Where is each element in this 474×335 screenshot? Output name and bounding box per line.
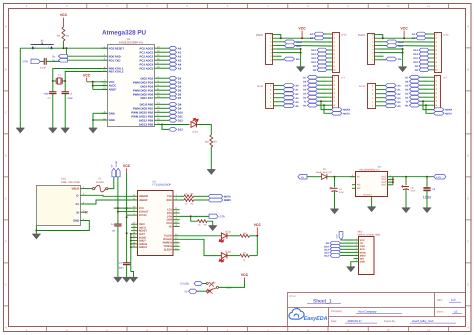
title block value underlines bbox=[307, 302, 462, 323]
svg-text:DIG7 PD7: DIG7 PD7 bbox=[140, 96, 153, 100]
svg-text:AREF: AREF bbox=[109, 87, 117, 91]
net port DTR right bbox=[209, 214, 218, 219]
wire fuse to 5V port bbox=[108, 177, 114, 189]
junction OUT rows bbox=[392, 178, 394, 180]
wire OUT bus vertical bbox=[392, 177, 394, 185]
svg-text:D+: D+ bbox=[76, 202, 80, 206]
U1 pin 24 PC1 ADC1 with net flag A1 bbox=[139, 50, 169, 55]
svg-text:DTR: DTR bbox=[220, 216, 225, 219]
net flag D13 bbox=[169, 128, 177, 132]
junction C7 net bbox=[126, 232, 128, 234]
net flag M8RX bbox=[208, 198, 223, 202]
svg-text:3.3V: 3.3V bbox=[336, 234, 339, 239]
net flag A0 bbox=[169, 46, 177, 50]
net flag D11 to MK2 bbox=[330, 251, 341, 255]
svg-text:D11: D11 bbox=[178, 115, 183, 118]
wire 5V row pin7 bbox=[380, 37, 435, 39]
ground below C4 bbox=[49, 128, 57, 133]
U1 pin 21 AREF bbox=[102, 87, 117, 92]
svg-text:VCC: VCC bbox=[400, 26, 408, 30]
wire C7 to ground bbox=[126, 265, 128, 278]
wire VCC down to U4 bbox=[126, 173, 128, 263]
wire reset row pin6 bbox=[380, 41, 435, 43]
svg-text:GND/ADJ: GND/ADJ bbox=[363, 194, 372, 197]
ground below C7 bbox=[122, 277, 130, 282]
ground below C8 reg bbox=[402, 208, 410, 213]
U1 pin 2 PD0 RXD bbox=[102, 54, 121, 59]
svg-text:D4: D4 bbox=[178, 85, 182, 88]
A0-A5 header pins bbox=[270, 84, 283, 107]
resistor R6 bbox=[198, 220, 208, 223]
svg-text:MSRX: MSRX bbox=[343, 109, 350, 112]
switch SJ1 power select bbox=[206, 282, 218, 294]
net flag D10 bbox=[317, 60, 327, 64]
svg-text:CSN: CSN bbox=[360, 245, 365, 248]
svg-text:2: 2 bbox=[389, 174, 390, 177]
junction C2/reset bbox=[65, 47, 67, 49]
svg-text:sherif_fathy_moh: sherif_fathy_moh bbox=[412, 319, 434, 323]
net port Tx bbox=[58, 59, 67, 63]
wire U4 ground bus bbox=[130, 233, 134, 277]
svg-text:DTR: DTR bbox=[23, 61, 28, 64]
svg-text:OUT: OUT bbox=[382, 176, 387, 179]
svg-text:C: C bbox=[5, 112, 7, 115]
junction gnd rows bbox=[402, 48, 404, 50]
wire U1 GND pin8 row bbox=[93, 112, 107, 114]
net flag Vin bbox=[284, 57, 295, 61]
junction VCC row bbox=[403, 37, 405, 39]
ground below C4 reg bbox=[330, 209, 338, 214]
U1 pin 26 PC3 ADC3 with net flag A3 bbox=[139, 58, 169, 63]
svg-text:MK2: MK2 bbox=[358, 230, 363, 233]
LED LED3 bbox=[219, 253, 227, 262]
svg-text:PWR1: PWR1 bbox=[358, 34, 366, 37]
wire R6 to ground bbox=[207, 221, 213, 225]
svg-text:Sheet:: Sheet: bbox=[437, 310, 444, 313]
svg-text:Rese: Rese bbox=[398, 41, 404, 44]
U4 pin 16 USBDM bbox=[131, 194, 148, 198]
wire U4 VCCIO row bbox=[127, 214, 131, 216]
net flag D2 bbox=[308, 95, 318, 99]
ground below S1 rail bbox=[16, 128, 24, 133]
net flag A4 analog bbox=[283, 100, 294, 104]
net flag A4 bbox=[169, 62, 177, 66]
svg-text:TXD: TXD bbox=[167, 195, 172, 198]
U4 pin 22 RXLED bbox=[163, 237, 179, 241]
wire pin8 jog bbox=[278, 35, 281, 39]
svg-text:VCC: VCC bbox=[254, 223, 262, 227]
net flag D11 bbox=[419, 56, 429, 60]
module MK2 NRF24 body bbox=[359, 237, 375, 275]
wire C8cap to ground bbox=[405, 189, 407, 207]
wire Vin to D1 bbox=[307, 176, 322, 178]
junction C4 input node bbox=[334, 176, 336, 178]
svg-text:D8: D8 bbox=[178, 103, 182, 106]
svg-text:A3: A3 bbox=[178, 59, 182, 62]
wire DIG13 to LED1 bbox=[162, 124, 189, 126]
LED LED1 bbox=[191, 118, 198, 127]
svg-text:PB7 XTAL2: PB7 XTAL2 bbox=[109, 70, 124, 74]
wire R8 to VCC node bbox=[249, 235, 257, 237]
junction AVCC bbox=[92, 85, 94, 87]
svg-text:D-: D- bbox=[76, 193, 79, 197]
net flag D3 bbox=[169, 80, 177, 84]
capacitor C4 22pF bbox=[49, 92, 56, 94]
junction GND bus bbox=[92, 119, 94, 121]
connector 0-7 header bbox=[435, 76, 441, 110]
U1 pin 8 GND bbox=[102, 111, 115, 116]
wire C8 to ground bbox=[117, 226, 119, 277]
8-13 header pins bbox=[328, 33, 337, 72]
U4 pin 21 GND21 bbox=[131, 245, 148, 249]
MK2 pin 3 CSN bbox=[354, 244, 365, 248]
connector A0-A5 header bbox=[368, 84, 376, 109]
svg-text:D6: D6 bbox=[178, 93, 182, 96]
svg-text:8-13: 8-13 bbox=[342, 33, 347, 36]
resistor R7 bbox=[240, 254, 250, 257]
svg-text:8: 8 bbox=[356, 259, 357, 262]
net port 3.3V down to MK2 bbox=[339, 232, 343, 240]
net flag A5 to pin2 bbox=[416, 36, 426, 40]
U4 pin 13 TXDEN bbox=[163, 244, 179, 248]
U4 pin 5 RXD bbox=[167, 198, 180, 202]
U3 pins NC bbox=[352, 184, 356, 186]
wire DIG13 to D13 flag bbox=[162, 125, 169, 130]
wire R3 to M8TX flag bbox=[194, 195, 209, 197]
net flag D9 to MK2 bbox=[330, 241, 341, 245]
svg-text:B: B bbox=[5, 69, 7, 72]
svg-text:3: 3 bbox=[389, 177, 390, 180]
capacitor C6 100n bbox=[423, 188, 430, 190]
svg-text:VBUS: VBUS bbox=[72, 187, 80, 191]
wire LED1 to R2 bbox=[197, 125, 212, 136]
net flag A2 analog bbox=[283, 92, 294, 96]
svg-text:PWR2: PWR2 bbox=[256, 34, 264, 37]
svg-text:22pF: 22pF bbox=[67, 97, 73, 100]
U4 pin 27 OSCI bbox=[131, 222, 145, 226]
svg-text:VCCIO: VCCIO bbox=[139, 214, 147, 217]
svg-text:Atmega328 PU: Atmega328 PU bbox=[102, 30, 147, 37]
net flag D10 bbox=[419, 60, 429, 64]
svg-text:D12: D12 bbox=[324, 255, 329, 258]
svg-text:3.3V: 3.3V bbox=[398, 45, 403, 48]
svg-text:NC: NC bbox=[357, 184, 361, 187]
svg-text:1/1: 1/1 bbox=[454, 310, 458, 313]
wire crystal right to C5 bbox=[64, 81, 66, 92]
net port VUSB up bbox=[116, 168, 120, 177]
svg-text:PC5 ADC5: PC5 ADC5 bbox=[139, 66, 153, 70]
net flag Tx bbox=[410, 99, 420, 103]
svg-text:G: G bbox=[5, 284, 7, 287]
svg-text:H: H bbox=[467, 327, 469, 330]
net flag A2 bbox=[169, 54, 177, 58]
svg-text:FT232RL/SSOP: FT232RL/SSOP bbox=[153, 184, 172, 187]
wire to C6 bbox=[426, 177, 428, 188]
junction 3V3OUT net bbox=[117, 211, 119, 213]
svg-text:VUSB: VUSB bbox=[115, 161, 118, 167]
net flag A3 bbox=[169, 58, 177, 62]
LED LED2 bbox=[219, 233, 227, 242]
net flag D8 bbox=[317, 68, 327, 72]
svg-text:RXD: RXD bbox=[167, 199, 172, 202]
net flag D8 bbox=[169, 103, 177, 107]
net flag D4 bbox=[410, 87, 420, 91]
net flag D12 to MK2 bbox=[330, 254, 341, 258]
resistor R2 bbox=[210, 135, 213, 147]
net flag D4 bbox=[169, 84, 177, 88]
svg-text:A0-A1: A0-A1 bbox=[359, 85, 366, 88]
A0-A5 header pins bbox=[372, 84, 385, 107]
resistor R1 bbox=[62, 27, 65, 41]
junction gnd rows bbox=[300, 48, 302, 50]
svg-text:Vin: Vin bbox=[398, 58, 402, 61]
net flag A5 analog bbox=[385, 104, 396, 108]
U4 pin 26 TEST bbox=[131, 231, 146, 235]
wire gnd bus down bbox=[300, 49, 302, 67]
resistor R4 bbox=[184, 199, 194, 202]
wire crystal left to C4 bbox=[52, 81, 54, 92]
net flag A1 analog bbox=[385, 88, 396, 92]
U4 pin 28 OSCO bbox=[131, 225, 146, 229]
svg-text:1: 1 bbox=[356, 238, 357, 241]
wire reset net horizontal bbox=[20, 47, 107, 49]
capacitor C8 1u bbox=[114, 224, 121, 226]
svg-text:D3: D3 bbox=[178, 81, 182, 84]
wire C2 to reset net bbox=[46, 48, 66, 61]
wire R2 to ground bbox=[210, 147, 212, 170]
net flag A4 analog bbox=[385, 100, 396, 104]
wire 5V to switch bbox=[197, 290, 206, 292]
wire to MSTX flag bbox=[426, 105, 434, 113]
junction crystal right bbox=[64, 80, 66, 82]
wire C5 to ground bbox=[64, 94, 66, 128]
U4 pin 15 USBDP bbox=[131, 198, 148, 202]
no-connect mark CN1 ID bbox=[85, 211, 87, 213]
svg-text:D13: D13 bbox=[311, 49, 316, 52]
wire to C8cap bbox=[405, 177, 407, 186]
net flag D12 bbox=[169, 119, 177, 123]
net flag D5 bbox=[308, 83, 318, 87]
svg-text:D11: D11 bbox=[414, 57, 419, 60]
svg-text:D10: D10 bbox=[178, 111, 183, 114]
svg-text:E: E bbox=[467, 198, 469, 201]
U4 pin 19 RESET bbox=[131, 228, 148, 232]
U1 pin 20 AVCC bbox=[102, 83, 117, 88]
svg-text:MSTX: MSTX bbox=[445, 112, 452, 115]
svg-text:SCK: SCK bbox=[360, 248, 365, 251]
net flag 5V bbox=[189, 289, 197, 293]
svg-text:EasyEDA: EasyEDA bbox=[304, 316, 328, 322]
wire TXLED to LED2 bbox=[180, 235, 222, 237]
net flag D2 bbox=[410, 95, 420, 99]
U1 pin 11 PWM DIG5 PD5 with net flag D5 bbox=[133, 88, 169, 93]
net flag Vin bbox=[386, 57, 397, 61]
net flag 3.3V mid bbox=[387, 44, 398, 48]
net flag D2 bbox=[169, 76, 177, 80]
resistor R8 bbox=[240, 234, 250, 237]
svg-text:OUT: OUT bbox=[382, 181, 387, 184]
U1 pin 5 PWM DIG3 PD3 with net flag D3 bbox=[133, 80, 169, 85]
PWR1 pins bbox=[372, 34, 379, 62]
svg-text:NC: NC bbox=[207, 291, 211, 294]
svg-text:D12: D12 bbox=[413, 53, 418, 56]
capacitor C2 bbox=[44, 58, 46, 65]
ground below C5 bbox=[61, 128, 69, 133]
wire CN1 shell to ground bbox=[35, 226, 37, 235]
svg-text:REV:: REV: bbox=[437, 299, 443, 302]
svg-text:MC33269DRQ-3.3: MC33269DRQ-3.3 bbox=[360, 169, 380, 172]
svg-text:D12: D12 bbox=[311, 53, 316, 56]
resistor R3 bbox=[184, 195, 194, 198]
net flag Reset mid bbox=[387, 40, 398, 44]
svg-text:A2: A2 bbox=[178, 55, 182, 58]
svg-text:M8RX: M8RX bbox=[224, 199, 231, 202]
wire to MSRX flag bbox=[423, 101, 434, 109]
svg-text:7V USB: 7V USB bbox=[180, 283, 189, 286]
junction Tx branch bbox=[422, 100, 424, 102]
svg-text:GND21: GND21 bbox=[139, 246, 148, 249]
junction VCC row bbox=[301, 37, 303, 39]
svg-text:TITLE:: TITLE: bbox=[289, 295, 297, 298]
CN1 pin 5 GND bbox=[73, 218, 86, 223]
svg-text:VCC: VCC bbox=[360, 239, 365, 242]
net flag D9 bbox=[317, 64, 327, 68]
svg-text:Company:: Company: bbox=[331, 310, 343, 313]
wire 3.3V row pin5 bbox=[278, 44, 333, 47]
wire AREF row bbox=[93, 88, 108, 90]
net flag D5 bbox=[169, 88, 177, 92]
wire S1 left to ground rail bbox=[19, 48, 21, 128]
wire 3.3V row pin5 bbox=[380, 44, 435, 47]
capacitor C5 22pF bbox=[62, 92, 69, 94]
ground below U4 bus bbox=[129, 277, 137, 282]
ground below C8 bbox=[114, 277, 122, 282]
net flag D12 bbox=[419, 52, 429, 56]
net flag A5 bbox=[169, 66, 177, 70]
wire DTR to C2 bbox=[40, 60, 44, 62]
wire C4cap to ground bbox=[334, 191, 336, 209]
wire gnd bus down bbox=[402, 49, 404, 67]
svg-text:ID: ID bbox=[76, 210, 79, 214]
net flag D3 bbox=[410, 91, 420, 95]
svg-text:FUSEP: FUSEP bbox=[96, 181, 104, 184]
svg-text:Date:: Date: bbox=[331, 320, 337, 323]
svg-text:COM: COM bbox=[226, 286, 232, 289]
8-13 header pins bbox=[430, 33, 439, 72]
MK2 pin 7 IQN bbox=[354, 256, 365, 260]
svg-text:6: 6 bbox=[356, 253, 357, 256]
MK2 pin 2 CE bbox=[354, 241, 364, 245]
svg-text:Your Company: Your Company bbox=[358, 309, 377, 313]
fuse F1 bbox=[93, 185, 108, 192]
U1 pin 18 DIG12 PB4 with net flag D12 bbox=[139, 118, 169, 123]
wire to MSTX flag bbox=[324, 105, 332, 113]
U4 pin 3 RTS bbox=[167, 211, 180, 215]
U1 pin 4 DIG2 PD2 with net flag D2 bbox=[140, 76, 169, 81]
svg-text:A: A bbox=[467, 26, 469, 29]
svg-text:7: 7 bbox=[356, 256, 357, 259]
U1 pin 19 DIG13 PB5 bbox=[139, 122, 162, 127]
junction DTR branch bbox=[190, 215, 192, 217]
junction Rx branch bbox=[425, 104, 427, 106]
net flag D7 bbox=[169, 96, 177, 100]
svg-text:A0: A0 bbox=[178, 47, 182, 50]
svg-text:DIG13 PB5: DIG13 PB5 bbox=[139, 123, 154, 127]
svg-text:D: D bbox=[5, 155, 7, 158]
junction Tx branch bbox=[320, 100, 322, 102]
wire GND bus down bbox=[92, 113, 94, 128]
ground below U3 bbox=[367, 207, 375, 212]
svg-text:Vin: Vin bbox=[296, 58, 300, 61]
U4 pin 10 DCD bbox=[166, 221, 179, 225]
U1 pin 16 PWM DIG10 PB2 with net flag D10 bbox=[131, 110, 169, 115]
wire U4 VCC row bbox=[114, 207, 131, 209]
wire reset row pin6 bbox=[278, 41, 333, 43]
svg-text:LED1: LED1 bbox=[192, 131, 199, 134]
svg-text:8-13: 8-13 bbox=[444, 33, 449, 36]
U4 pin 17 3V3OUT bbox=[131, 209, 149, 213]
wire VBUS to fuse bbox=[87, 188, 93, 190]
wire VUSB down to C8 and gnd bbox=[117, 177, 119, 224]
U3 pins OUT x4 bbox=[382, 174, 393, 186]
net flag D11 bbox=[317, 56, 327, 60]
U1 pin 10 PB7 XTAL2 bbox=[102, 69, 124, 74]
net flag D9 bbox=[169, 107, 177, 111]
net flag A5 analog bbox=[283, 104, 294, 108]
connector 0-7 header bbox=[333, 76, 339, 110]
net flag D10 to MK2 bbox=[330, 244, 341, 248]
svg-text:B: B bbox=[467, 69, 469, 72]
net flag 7V USB bbox=[194, 281, 202, 285]
svg-text:PC6 RESET: PC6 RESET bbox=[109, 46, 125, 50]
svg-text:diode_smd_m7: diode_smd_m7 bbox=[316, 171, 332, 174]
wire DTR to R6 bbox=[191, 216, 198, 221]
ground of header group bbox=[398, 67, 406, 72]
svg-text:CE: CE bbox=[360, 242, 364, 245]
svg-text:5: 5 bbox=[356, 250, 357, 253]
net flag MSRX bbox=[332, 108, 343, 112]
wire COM to VCC bbox=[219, 280, 245, 287]
connector A0-A5 header bbox=[266, 84, 274, 109]
U4 pin 2 DTR bbox=[167, 214, 180, 218]
wire R1 to reset net bbox=[62, 41, 64, 48]
net flag A4 to pin1 bbox=[314, 32, 324, 36]
net flag A1 analog bbox=[283, 88, 294, 92]
wire C4 to ground bbox=[52, 94, 54, 128]
svg-text:A4: A4 bbox=[178, 63, 182, 66]
net port Vin input bbox=[298, 174, 307, 179]
PWR2 pins bbox=[270, 34, 277, 62]
U1 pin 7 VCC bbox=[102, 79, 115, 84]
net flag A0 analog bbox=[385, 84, 396, 88]
U4 pin 18 GND18 bbox=[131, 241, 148, 245]
U4 pin 4 VCCIO bbox=[131, 213, 147, 217]
junction VCC bus bbox=[92, 81, 94, 83]
wire pin2 stub bbox=[278, 55, 282, 57]
svg-text:OUT: OUT bbox=[382, 178, 387, 181]
svg-text:A0-A1: A0-A1 bbox=[257, 85, 264, 88]
wire 3.3V to MK2 VCC bbox=[341, 239, 354, 241]
svg-text:MSTX: MSTX bbox=[343, 112, 350, 115]
U1 pin 13 DIG7 PD7 with net flag D7 bbox=[140, 95, 169, 100]
svg-text:D11: D11 bbox=[312, 57, 317, 60]
net flag A5 to pin2 bbox=[314, 36, 324, 40]
wire R7 to VCC node bbox=[249, 255, 257, 257]
net flag 3.3V mid bbox=[285, 44, 296, 48]
svg-text:Rese: Rese bbox=[296, 41, 302, 44]
net flag D6 bbox=[308, 79, 318, 83]
net flag A2 analog bbox=[385, 92, 396, 96]
